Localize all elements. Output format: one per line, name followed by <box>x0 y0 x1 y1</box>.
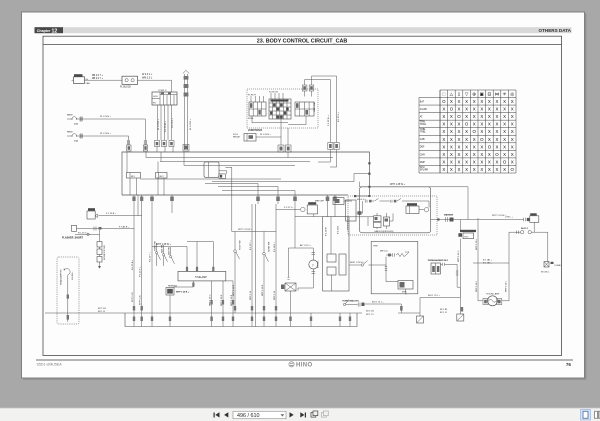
ground bus main <box>45 312 420 314</box>
svg-text:X: X <box>458 122 461 127</box>
svg-text:X: X <box>473 137 476 142</box>
flasher relay labels <box>106 213 117 215</box>
svg-text:X: X <box>488 137 491 142</box>
prev page button <box>224 412 228 417</box>
ground terminal 1 <box>417 316 424 323</box>
center vertical pair <box>252 204 256 313</box>
svg-text:X: X <box>511 137 514 142</box>
next page button <box>290 412 294 417</box>
fusebox internal link wires <box>252 116 306 125</box>
connector at relay <box>219 174 225 179</box>
wires GCU block down <box>158 105 172 140</box>
keyless contact cluster <box>349 213 393 229</box>
svg-text:RB 2.0 7 +: RB 2.0 7 + <box>92 78 104 80</box>
svg-text:△: △ <box>450 92 454 97</box>
ground terminal 2 <box>457 314 464 321</box>
svg-text:X: X <box>488 107 491 112</box>
svg-text:X: X <box>458 144 461 149</box>
dome fuse box <box>524 213 539 222</box>
delay relay cluster <box>276 202 323 216</box>
svg-text:X: X <box>442 167 445 172</box>
svg-text:X: X <box>442 152 445 157</box>
svg-text:NOISE FILTER: NOISE FILTER <box>104 245 106 260</box>
svg-text:MTR: MTR <box>402 292 407 294</box>
fusebox right grid <box>295 101 316 116</box>
door unit labels <box>325 225 339 236</box>
svg-text:X: X <box>473 144 476 149</box>
junction box outline <box>122 152 369 196</box>
svg-text:X: X <box>488 129 491 134</box>
circuit breaker 1 <box>67 117 84 121</box>
svg-text:X: X <box>450 152 453 157</box>
svg-text:RB/M: RB/M <box>67 132 73 134</box>
junction box bottom pins <box>132 195 336 213</box>
svg-text:X: X <box>473 114 476 119</box>
wire labels vertical <box>158 117 174 132</box>
svg-text:RLY: RLY <box>160 176 165 178</box>
svg-text:MR 0.5L: MR 0.5L <box>380 251 389 253</box>
svg-text:P 1.25 Y +: P 1.25 Y + <box>140 266 142 277</box>
HINO logo <box>289 362 313 369</box>
svg-text:X: X <box>496 159 499 164</box>
svg-text:X: X <box>480 122 483 127</box>
svg-text:X: X <box>488 114 491 119</box>
svg-text:B/U 1 75 1 +: B/U 1 75 1 + <box>372 302 384 304</box>
svg-text:O: O <box>465 122 469 127</box>
relay RLY2 in box <box>156 173 168 179</box>
svg-text:W 1.25 B +: W 1.25 B + <box>260 134 272 136</box>
svg-text:X: X <box>473 159 476 164</box>
svg-text:BAT: BAT <box>420 100 425 103</box>
ground labels <box>440 309 448 314</box>
svg-text:X: X <box>465 152 468 157</box>
svg-text:X: X <box>503 114 506 119</box>
two page icon partial <box>595 411 598 418</box>
wire WTP to dome column <box>212 174 468 220</box>
svg-text:HORN SW: HORN SW <box>269 242 271 252</box>
svg-text:R 1.25 W +: R 1.25 W + <box>165 120 167 132</box>
wire relay to junction <box>256 136 281 138</box>
svg-text:X: X <box>473 122 476 127</box>
long vertical wire F <box>329 80 331 143</box>
svg-text:STOP SW: STOP SW <box>240 240 242 250</box>
diagram outer border <box>43 36 562 355</box>
dome lamp feed wire <box>431 219 524 221</box>
wiper motor <box>298 253 318 291</box>
battery labels <box>86 75 104 85</box>
power window vertical <box>459 239 461 298</box>
pin labels <box>209 294 232 306</box>
svg-text:X: X <box>465 129 468 134</box>
svg-text:X: X <box>511 114 514 119</box>
svg-text:X: X <box>465 137 468 142</box>
deicer switch chain <box>344 195 429 208</box>
flasher relay <box>87 208 98 219</box>
headlamp box <box>57 257 79 324</box>
center vertical 2 with switch <box>263 232 269 314</box>
breaker1 connector <box>143 140 147 151</box>
svg-text:B2 1 B1: B2 1 B1 <box>440 309 448 311</box>
horn labels <box>343 300 385 303</box>
keyless dashed box <box>348 196 437 235</box>
svg-text:TRBL: TRBL <box>420 129 427 131</box>
wire breaker1 to junction box <box>84 119 145 145</box>
next view icon (disabled) <box>322 411 329 417</box>
svg-text:X: X <box>496 122 499 127</box>
last page button <box>300 412 306 417</box>
svg-text:X: X <box>480 152 483 157</box>
T/S&LAMP box <box>178 271 226 281</box>
svg-text:F 1 25 1 +: F 1 25 1 + <box>284 207 294 209</box>
svg-text:O: O <box>510 167 514 172</box>
flasher short labels <box>62 226 130 240</box>
svg-text:M 0.5 G +: M 0.5 G + <box>357 199 367 201</box>
keyless left box <box>346 200 357 221</box>
svg-text:X: X <box>511 99 514 104</box>
svg-text:X: X <box>442 144 445 149</box>
svg-text:FUSE: FUSE <box>248 118 254 120</box>
chapter 12 tab <box>35 27 64 33</box>
svg-text:✳: ✳ <box>503 92 507 97</box>
center switch bus wire <box>232 231 276 233</box>
svg-text:O: O <box>495 152 499 157</box>
svg-text:X: X <box>473 107 476 112</box>
relay RLY1 in box <box>127 173 141 179</box>
flasher short circuit <box>72 225 135 235</box>
svg-text:WTP 1.25 G: WTP 1.25 G <box>458 250 460 262</box>
connectors at bottom of long verticals <box>328 143 339 150</box>
turn hazard wire <box>441 263 461 287</box>
wires connectors into junction box <box>157 147 173 153</box>
svg-text:B2 1 11: B2 1 11 <box>440 312 448 314</box>
svg-text:X: X <box>511 159 514 164</box>
single page view icon (selected) <box>581 410 591 421</box>
dome fuse chain <box>509 222 548 261</box>
wire label <box>142 73 153 79</box>
svg-text:X: X <box>480 129 483 134</box>
svg-text:RESMKA: RESMKA <box>168 285 177 288</box>
svg-text:B 0.85 L: B 0.85 L <box>318 259 320 268</box>
svg-text:B 1.25 R +: B 1.25 R + <box>274 241 276 252</box>
svg-text:WTP 1.25: WTP 1.25 <box>132 292 134 302</box>
svg-text:WM 2.0 L: WM 2.0 L <box>142 76 153 79</box>
svg-text:L RB + +: L RB + + <box>505 217 514 219</box>
keyless labels <box>357 199 394 233</box>
svg-text:W 1 25 B +: W 1 25 B + <box>100 133 112 135</box>
svg-text:X: X <box>496 137 499 142</box>
GCU relay block <box>152 92 177 105</box>
wiper branch wire <box>289 248 314 260</box>
svg-text:X: X <box>511 107 514 112</box>
dome feed junction <box>437 218 439 220</box>
svg-text:MARKER: MARKER <box>444 213 454 216</box>
svg-text:CAB: CAB <box>86 82 91 85</box>
svg-text:A/CAB: A/CAB <box>420 108 427 111</box>
svg-text:⊟: ⊟ <box>487 92 491 97</box>
svg-text:O: O <box>488 144 492 149</box>
turn hazard connectors <box>431 263 441 274</box>
center vertical labels <box>233 240 276 300</box>
svg-text:45A: 45A <box>74 122 78 125</box>
door switch label <box>541 265 561 274</box>
door control unit box <box>323 204 349 291</box>
dome left vertical <box>477 218 479 297</box>
svg-text:X: X <box>496 99 499 104</box>
svg-text:X: X <box>480 107 483 112</box>
GCU labels <box>153 90 167 105</box>
svg-text:X: X <box>473 99 476 104</box>
wire battery to fusible link <box>85 79 123 81</box>
svg-text:TCB: TCB <box>405 252 410 254</box>
svg-text:B/U 1 75 1 +: B/U 1 75 1 + <box>428 295 441 297</box>
noise filter chain <box>97 230 102 269</box>
backup lamp chain <box>349 261 386 267</box>
dome cross wire <box>473 262 509 264</box>
svg-text:MIR DEF: MIR DEF <box>315 201 325 203</box>
svg-text:WTP 1.25 L: WTP 1.25 L <box>506 280 508 292</box>
svg-text:X: X <box>442 129 445 134</box>
svg-text:X: X <box>450 144 453 149</box>
svg-text:X: X <box>465 159 468 164</box>
resistor module <box>166 288 174 314</box>
wire fusible link to GCU block <box>138 80 172 92</box>
svg-text:X: X <box>511 152 514 157</box>
sub harness double wire <box>183 70 189 151</box>
svg-text:RB 2.0 7 +: RB 2.0 7 + <box>92 75 104 77</box>
svg-text:WTP 1.25 L: WTP 1.25 L <box>476 238 478 250</box>
turn switch 3 <box>169 247 174 264</box>
svg-text:WTP 1.25 L: WTP 1.25 L <box>476 280 478 292</box>
junction box stepped wires <box>318 150 337 168</box>
fusible link FL <box>122 76 138 84</box>
svg-text:F 1 A5 B +: F 1 A5 B + <box>119 226 130 229</box>
svg-text:WTP 1.25 B: WTP 1.25 B <box>233 284 235 296</box>
svg-text:X: X <box>511 122 514 127</box>
svg-text:5A 15 1: 5A 15 1 <box>521 227 529 230</box>
svg-text:B 1.25 B +: B 1.25 B + <box>132 259 134 270</box>
svg-text:X: X <box>450 99 453 104</box>
footer rule <box>36 359 573 361</box>
svg-text:X: X <box>450 114 453 119</box>
svg-text:X: X <box>488 159 491 164</box>
svg-text:45A: 45A <box>74 139 78 142</box>
svg-text:B 1 1B1 +: B 1 1B1 + <box>483 259 493 261</box>
wire relay to vertical <box>99 215 142 217</box>
svg-text:X: X <box>503 137 506 142</box>
svg-text:SPL/RR: SPL/RR <box>420 169 429 171</box>
svg-text:▣: ▣ <box>480 92 485 97</box>
center vertical 3 <box>275 204 277 313</box>
cab fusebox dashed outline <box>247 89 318 128</box>
long vertical wire left pair <box>134 204 142 313</box>
keyless inner left stub <box>357 201 363 215</box>
svg-text:W 1.25 B +: W 1.25 B + <box>158 118 160 130</box>
horn switch chain <box>343 300 402 314</box>
svg-text:R1 R2 R3: R1 R2 R3 <box>269 91 279 93</box>
svg-text:X: X <box>450 159 453 164</box>
svg-text:X: X <box>503 107 506 112</box>
svg-text:RELAY: RELAY <box>233 136 241 139</box>
svg-text:▽: ▽ <box>465 92 469 97</box>
svg-text:DIM SW: DIM SW <box>168 247 170 255</box>
svg-text:X: X <box>450 129 453 134</box>
svg-text:□: □ <box>442 92 445 97</box>
connector row under GCU <box>155 141 175 147</box>
svg-text:B/UP 1.25 W +: B/UP 1.25 W + <box>350 262 365 264</box>
svg-text:⊕: ⊕ <box>472 92 476 97</box>
svg-text:R 1.25 Y +: R 1.25 Y + <box>78 233 89 235</box>
svg-text:X: X <box>480 159 483 164</box>
svg-text:DEF: DEF <box>420 147 425 149</box>
svg-text:WTP 1.25: WTP 1.25 <box>274 290 276 300</box>
top right connectors pair <box>302 85 314 97</box>
turn switch 1 <box>155 243 160 266</box>
svg-text:7: 7 <box>312 263 314 267</box>
resistor module labels <box>168 285 190 294</box>
svg-text:X: X <box>442 137 445 142</box>
breaker2 connector <box>127 140 131 151</box>
keyless relay <box>406 203 429 213</box>
breaker1 labels <box>67 115 112 126</box>
turn switch 2 <box>162 245 167 266</box>
svg-text:X: X <box>480 144 483 149</box>
svg-text:AP 1 25 1 +: AP 1 25 1 + <box>300 244 312 247</box>
svg-text:X: X <box>503 99 506 104</box>
svg-text:X: X <box>496 114 499 119</box>
connector second <box>286 145 292 152</box>
svg-text:WTP 1.25 B +: WTP 1.25 B + <box>176 292 190 294</box>
svg-text:FU: FU <box>153 103 156 105</box>
washer pump box <box>281 278 296 314</box>
junction ticks on riser <box>368 162 370 197</box>
svg-text:B 1.25 W: B 1.25 W <box>325 227 327 236</box>
door switch box <box>544 262 554 268</box>
turn lamp feeder wire <box>152 204 213 313</box>
wires relays to box bottom <box>127 152 288 195</box>
svg-text:B2 1 11: B2 1 11 <box>98 311 106 313</box>
svg-text:X: X <box>496 144 499 149</box>
body ECU enclosure <box>360 187 431 233</box>
svg-text:CAB FUSE: CAB FUSE <box>313 101 316 112</box>
svg-text:R 1.25 Y +: R 1.25 Y + <box>150 251 152 262</box>
svg-text:X: X <box>496 129 499 134</box>
svg-text:H 4 RH +: H 4 RH + <box>72 271 74 280</box>
svg-text:HAZ SW: HAZ SW <box>160 245 163 253</box>
svg-text:X: X <box>480 114 483 119</box>
svg-text:X: X <box>458 137 461 142</box>
svg-text:O: O <box>480 137 484 142</box>
svg-text:WTP 1.25: WTP 1.25 <box>140 295 142 305</box>
wire breaker2 to junction box <box>84 136 128 145</box>
svg-text:X: X <box>458 152 461 157</box>
fusebox middle grid <box>269 93 291 119</box>
svg-text:B 1.25 L +: B 1.25 L + <box>338 111 340 122</box>
svg-text:X: X <box>488 167 491 172</box>
svg-text:B 1 1B5 +: B 1 1B5 + <box>483 263 493 265</box>
wires loop to long verticals <box>305 76 337 85</box>
svg-text:◎: ◎ <box>510 92 515 97</box>
mirror lock box <box>371 242 418 294</box>
svg-text:W 1.25 B +: W 1.25 B + <box>190 118 192 130</box>
circuit breaker 2 <box>67 134 84 138</box>
svg-text:GCU: GCU <box>153 96 158 98</box>
svg-text:DOME: DOME <box>555 265 562 267</box>
svg-text:TURN&HAZARD RLY: TURN&HAZARD RLY <box>428 259 449 262</box>
svg-text:X: X <box>465 167 468 172</box>
svg-text:X: X <box>458 167 461 172</box>
deicer feed box <box>333 198 344 205</box>
breaker2 labels <box>67 132 112 143</box>
svg-text:X: X <box>488 122 491 127</box>
svg-text:X: X <box>465 144 468 149</box>
room lamp <box>478 296 509 306</box>
relay corner wires <box>219 167 232 231</box>
svg-text:X: X <box>442 114 445 119</box>
svg-text:G 1.25 L +: G 1.25 L + <box>172 117 174 128</box>
svg-text:HORN SW(S.RY): HORN SW(S.RY) <box>343 300 360 302</box>
svg-text:X: X <box>473 167 476 172</box>
svg-text:W 1 25 B +: W 1 25 B + <box>100 116 112 118</box>
svg-text:F5 F6 F7: F5 F6 F7 <box>248 94 257 96</box>
toolbar background <box>0 408 600 421</box>
svg-text:HEADLAMP RH: HEADLAMP RH <box>60 269 63 285</box>
pin connectors under box <box>192 283 234 305</box>
connector mid down <box>278 145 284 152</box>
battery <box>72 74 85 83</box>
center switch labels <box>240 240 271 252</box>
dome feed inline connector <box>444 213 454 221</box>
svg-text:X: X <box>458 107 461 112</box>
fusebox left grid pin labels <box>248 94 257 120</box>
svg-text:RB/M: RB/M <box>67 115 73 117</box>
ground bus labels <box>98 308 375 316</box>
svg-text:TRN: TRN <box>373 245 378 247</box>
svg-text:TRAI: TRAI <box>420 121 426 124</box>
feeder pin connectors <box>186 267 215 272</box>
svg-text:WTP 1.25 R: WTP 1.25 R <box>262 284 264 296</box>
vertical wire labels <box>328 111 340 126</box>
svg-text:X: X <box>450 167 453 172</box>
svg-text:B2 1 B1: B2 1 B1 <box>366 310 375 312</box>
vertical labels dome <box>476 238 508 292</box>
switch labels <box>150 241 171 262</box>
svg-text:X: X <box>465 114 468 119</box>
svg-text:X: X <box>503 144 506 149</box>
svg-text:X: X <box>473 152 476 157</box>
svg-text:X: X <box>465 107 468 112</box>
fusebox left grid <box>249 96 266 116</box>
svg-text:X: X <box>450 137 453 142</box>
svg-text:O: O <box>472 129 476 134</box>
svg-text:▯: ▯ <box>458 92 461 97</box>
lock actuator box <box>398 281 413 295</box>
wire fusebox second down <box>287 128 289 145</box>
relay labels <box>233 134 272 139</box>
svg-text:X: X <box>442 107 445 112</box>
small connector marks above bus <box>133 306 463 312</box>
svg-text:B2 1 21: B2 1 21 <box>366 314 374 316</box>
svg-text:CHR: CHR <box>420 154 425 156</box>
svg-text:X: X <box>511 129 514 134</box>
svg-text:O: O <box>503 159 507 164</box>
svg-text:TURN SW: TURN SW <box>154 241 156 251</box>
power window box <box>458 230 476 239</box>
svg-text:X: X <box>465 99 468 104</box>
wire fusebox mid down <box>280 119 282 145</box>
long vertical wire B <box>336 76 338 143</box>
connector application table <box>419 90 516 173</box>
svg-text:FLASHER_SHORT: FLASHER_SHORT <box>62 237 84 240</box>
